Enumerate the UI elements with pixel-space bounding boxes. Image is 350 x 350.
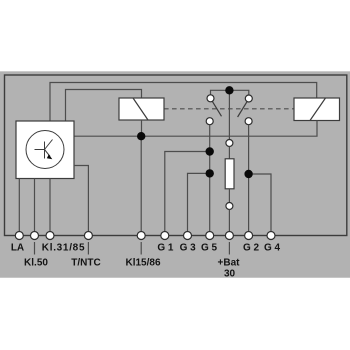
connector pin above resistor (226, 140, 233, 147)
node G1 junction (206, 147, 214, 155)
switch S2 bottom contact (245, 118, 252, 125)
wire: common drop to connector (228, 90, 230, 139)
terminal G5 (206, 232, 214, 240)
node common junction (225, 86, 233, 94)
svg-text:+Bat: +Bat (218, 258, 241, 269)
tick below Kl.50 (34, 242, 36, 255)
terminal G3 (184, 232, 192, 240)
terminal G4 (267, 232, 275, 240)
wire: timer pin to coil K1 top (66, 90, 142, 122)
wire: timer pin to Kl.31/85 terminal (49, 179, 51, 232)
relay coil K1 (119, 98, 164, 120)
terminal G2 (245, 232, 253, 240)
wire: connector to +Bat terminal (228, 210, 230, 232)
svg-text:LA: LA (11, 243, 24, 254)
wire: timer pin to LA terminal (18, 179, 20, 232)
switch S1 top contact (207, 95, 214, 102)
wire: G4 branch (249, 174, 271, 232)
svg-text:Kl15/86: Kl15/86 (125, 258, 160, 269)
relay housing outline (5, 75, 347, 236)
svg-text:G 5: G 5 (201, 243, 218, 254)
terminal Kl15/86 (137, 232, 145, 240)
relay coil K2 (294, 98, 340, 121)
connector pin below resistor (226, 203, 233, 210)
node coil junction (137, 132, 145, 140)
dashed actuation line (164, 108, 294, 110)
switch S1 bottom contact (206, 118, 213, 125)
terminal T/NTC (84, 232, 92, 240)
wire: connector to resistor top (228, 147, 230, 160)
node G4 junction (244, 170, 252, 178)
node G3 junction (206, 169, 214, 177)
terminal Kl.31/85 (46, 232, 54, 240)
wire: junction down to Kl15/86 terminal (140, 136, 142, 231)
svg-text:G 1: G 1 (157, 243, 174, 254)
terminal G1 (161, 232, 169, 240)
switch S1 blade (212, 101, 221, 116)
wire: coil K2 bottom to junction (long run) (141, 121, 317, 137)
tick below Kl15/86 (140, 242, 142, 255)
svg-text:G 4: G 4 (264, 243, 281, 254)
wire: timer right side to junction (74, 135, 141, 137)
wire: coil K1 bottom to junction (141, 120, 143, 136)
wire: timer side pin to T/NTC terminal (74, 166, 88, 232)
wire: timer pin to coil K2 top (big loop) (50, 83, 317, 122)
svg-text:G 2: G 2 (243, 243, 260, 254)
wire: timer pin to Kl.50 terminal (34, 179, 36, 232)
terminal LA (15, 232, 23, 240)
svg-text:Kl.31/85: Kl.31/85 (42, 243, 85, 254)
wire: S1 bottom contact down to G5 terminal (209, 125, 211, 232)
switch S2 blade (238, 102, 247, 117)
wire: S2 bottom contact down to G2 terminal (248, 125, 250, 232)
wire: switch common bar (211, 90, 249, 95)
svg-text:30: 30 (224, 269, 236, 280)
timer module U1 (16, 121, 74, 179)
wire: G1 branch (165, 152, 210, 232)
wire: G3 branch (188, 173, 210, 231)
switch S2 top contact (245, 95, 252, 102)
svg-text:Kl.50: Kl.50 (24, 258, 48, 269)
tick below +Bat (228, 242, 230, 255)
tick below T/NTC (87, 242, 89, 255)
wire: resistor bottom to connector (228, 189, 230, 203)
terminal +Bat 30 (225, 232, 233, 240)
svg-text:G 3: G 3 (180, 243, 197, 254)
resistor R1 (225, 159, 234, 189)
gray panel background (0, 71, 350, 278)
svg-text:T/NTC: T/NTC (71, 258, 100, 269)
terminal Kl.50 (31, 232, 39, 240)
